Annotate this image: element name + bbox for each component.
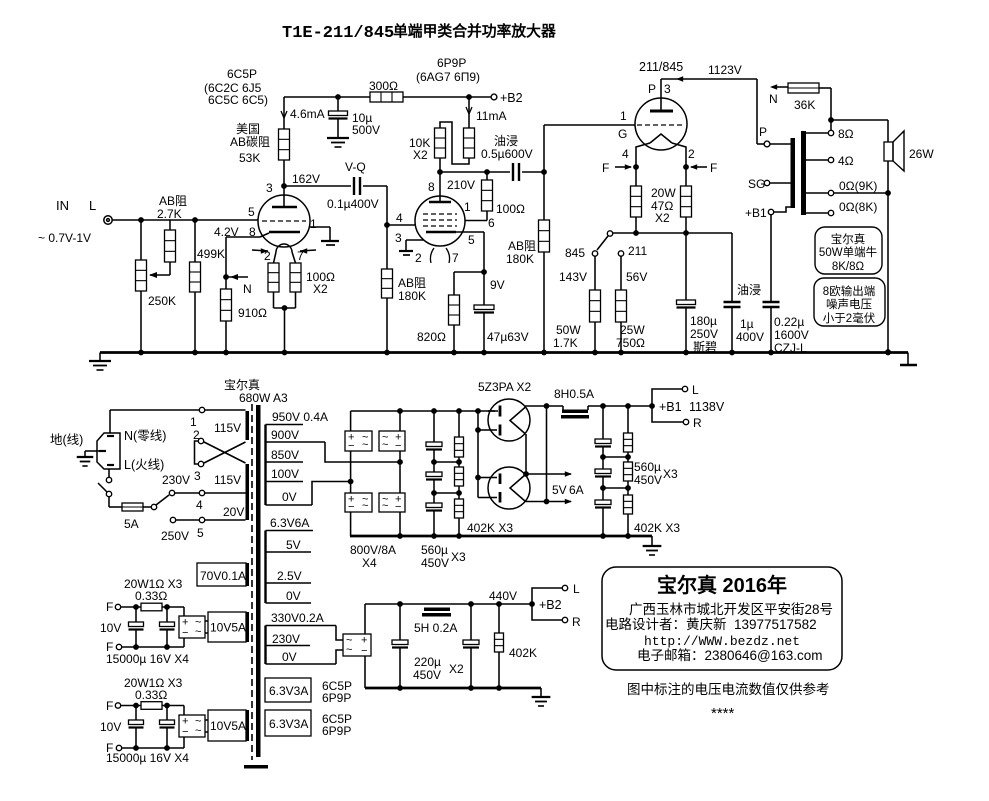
svg-text:+B1: +B1: [745, 206, 767, 220]
svg-text:X2: X2: [413, 148, 428, 162]
svg-text:450V: 450V: [413, 668, 441, 682]
svg-text:6A: 6A: [569, 483, 584, 497]
svg-text:53K: 53K: [239, 151, 260, 165]
svg-text:1.7K: 1.7K: [553, 336, 578, 350]
svg-text:4.6mA: 4.6mA: [290, 107, 325, 121]
svg-text:0V: 0V: [286, 589, 301, 603]
svg-text:F: F: [602, 161, 609, 175]
svg-text:800V/8A: 800V/8A: [350, 543, 396, 557]
svg-text:X2: X2: [449, 662, 464, 676]
svg-text:9V: 9V: [490, 278, 505, 292]
svg-text:680W A3: 680W A3: [239, 391, 288, 405]
svg-text:820Ω: 820Ω: [417, 330, 446, 344]
svg-text:2: 2: [193, 428, 200, 442]
svg-text:230V: 230V: [162, 473, 190, 487]
svg-text:400V: 400V: [736, 330, 764, 344]
svg-text:402K: 402K: [509, 646, 537, 660]
svg-text:180µ: 180µ: [690, 314, 717, 328]
svg-text:950V 0.4A: 950V 0.4A: [272, 410, 328, 424]
svg-text:4.2V: 4.2V: [214, 225, 239, 239]
svg-text:N(零线): N(零线): [124, 429, 166, 443]
svg-text:330V0.2A: 330V0.2A: [271, 611, 324, 625]
svg-text:4: 4: [196, 498, 203, 512]
svg-text:10V: 10V: [100, 621, 121, 635]
svg-text:1: 1: [620, 109, 627, 123]
svg-text:X4: X4: [362, 556, 377, 570]
svg-text:SG: SG: [748, 177, 765, 191]
svg-text:5Z3PA X2: 5Z3PA X2: [478, 380, 531, 394]
svg-text:47µ63V: 47µ63V: [487, 330, 529, 344]
svg-text:6C5P: 6C5P: [227, 67, 257, 81]
svg-text:2: 2: [415, 251, 422, 265]
svg-text:AB碳阻: AB碳阻: [230, 135, 270, 149]
svg-text:750Ω: 750Ω: [616, 336, 645, 350]
svg-text:100V: 100V: [271, 467, 299, 481]
svg-text:6.3V6A: 6.3V6A: [270, 516, 309, 530]
svg-text:油浸: 油浸: [737, 283, 761, 297]
svg-text:36K: 36K: [794, 98, 815, 112]
svg-text:6.3V3A: 6.3V3A: [269, 717, 308, 731]
svg-text:6P9P: 6P9P: [437, 56, 466, 70]
svg-text:0Ω(9K): 0Ω(9K): [839, 179, 877, 193]
svg-text:0.5µ600V: 0.5µ600V: [481, 147, 533, 161]
svg-text:R: R: [572, 615, 581, 629]
svg-text:7: 7: [297, 249, 304, 263]
svg-text:11mA: 11mA: [476, 109, 506, 123]
svg-text:4: 4: [396, 211, 403, 225]
svg-text:T1E-211/845: T1E-211/845: [282, 24, 394, 43]
svg-text:−: −: [361, 645, 367, 657]
svg-text:电子邮箱：2380646@163.com: 电子邮箱：2380646@163.com: [637, 648, 823, 663]
svg-text:X2: X2: [313, 282, 328, 296]
svg-text:230V: 230V: [272, 632, 300, 646]
svg-text:7: 7: [452, 251, 459, 265]
svg-text:8Ω: 8Ω: [838, 127, 854, 141]
svg-text:****: ****: [711, 705, 735, 722]
svg-text:440V: 440V: [489, 589, 517, 603]
svg-text:噪声电压: 噪声电压: [826, 297, 872, 311]
svg-text:~ 0.7V-1V: ~ 0.7V-1V: [38, 231, 91, 245]
svg-text:13977517582: 13977517582: [734, 617, 817, 632]
svg-text:6P9P: 6P9P: [322, 691, 351, 705]
svg-text:P: P: [648, 82, 656, 96]
svg-text:5V: 5V: [552, 483, 567, 497]
svg-text:8H0.5A: 8H0.5A: [554, 387, 594, 401]
svg-text:美国: 美国: [236, 122, 260, 136]
svg-text:R: R: [693, 416, 702, 430]
svg-text:X3: X3: [663, 467, 678, 481]
svg-text:AB阻: AB阻: [159, 194, 187, 208]
svg-text:0.33Ω: 0.33Ω: [135, 589, 167, 603]
svg-text:50W单端牛: 50W单端牛: [819, 245, 877, 259]
svg-text:L: L: [89, 198, 96, 213]
svg-text:220µ: 220µ: [414, 655, 441, 669]
svg-text:宝尔真: 宝尔真: [224, 377, 260, 392]
svg-text:~: ~: [346, 644, 352, 656]
svg-text:宝尔真: 宝尔真: [831, 232, 866, 246]
svg-text:G: G: [618, 127, 627, 141]
svg-text:115V: 115V: [214, 421, 241, 435]
svg-text:115V: 115V: [214, 473, 241, 487]
svg-text:211/845: 211/845: [639, 60, 683, 74]
svg-text:5V: 5V: [286, 538, 301, 552]
svg-text:−: −: [182, 627, 188, 639]
svg-text:25W: 25W: [620, 323, 645, 337]
svg-text:1123V: 1123V: [708, 63, 742, 77]
svg-text:2.5V: 2.5V: [277, 569, 302, 583]
svg-text:地(线): 地(线): [50, 433, 83, 447]
svg-text:10V5A: 10V5A: [210, 621, 246, 635]
svg-text:1600V: 1600V: [774, 328, 809, 342]
svg-text:+B2: +B2: [539, 598, 562, 612]
svg-text:+B1: +B1: [659, 400, 682, 414]
svg-text:5: 5: [468, 233, 475, 247]
svg-text:1: 1: [190, 415, 197, 429]
svg-text:20W: 20W: [651, 186, 676, 200]
svg-text:0V: 0V: [282, 490, 297, 504]
svg-text:15000µ 16V X4: 15000µ 16V X4: [106, 751, 189, 765]
svg-text:15000µ 16V X4: 15000µ 16V X4: [106, 652, 189, 666]
svg-text:210V: 210V: [447, 178, 475, 192]
svg-text:−: −: [395, 501, 401, 513]
svg-text:900V: 900V: [271, 428, 299, 442]
svg-text:50W: 50W: [556, 323, 581, 337]
svg-text:70V0.1A: 70V0.1A: [200, 569, 246, 583]
svg-text:845: 845: [565, 246, 585, 260]
svg-text:0Ω(8K): 0Ω(8K): [839, 200, 877, 214]
svg-text:500V: 500V: [352, 123, 380, 137]
svg-text:499K: 499K: [197, 247, 225, 261]
svg-text:8欧输出端: 8欧输出端: [823, 284, 875, 298]
svg-text:180K: 180K: [506, 252, 534, 266]
svg-text:油浸: 油浸: [494, 134, 518, 148]
svg-text:6: 6: [488, 216, 495, 230]
svg-text:6C5C 6C5): 6C5C 6C5): [208, 93, 268, 107]
svg-text:4Ω: 4Ω: [838, 154, 854, 168]
svg-text:−: −: [348, 501, 354, 513]
svg-text:250V: 250V: [690, 327, 718, 341]
svg-text:2: 2: [688, 147, 695, 161]
svg-text:N: N: [769, 92, 778, 106]
svg-text:26W: 26W: [909, 147, 934, 161]
svg-text:L: L: [692, 383, 699, 397]
svg-text:5A: 5A: [124, 517, 139, 531]
svg-text:162V: 162V: [292, 172, 320, 186]
svg-text:小于2毫伏: 小于2毫伏: [823, 311, 876, 325]
svg-text:P: P: [759, 125, 767, 139]
svg-text:1: 1: [464, 200, 471, 214]
svg-text:6P9P: 6P9P: [322, 724, 351, 738]
svg-text:AB阻: AB阻: [508, 239, 536, 253]
svg-text:5: 5: [197, 526, 204, 540]
svg-text:~: ~: [362, 439, 368, 451]
svg-text:电路设计者：黄庆新: 电路设计者：黄庆新: [605, 617, 727, 632]
svg-text:F: F: [710, 161, 717, 175]
svg-text:图中标注的电压电流数值仅供参考: 图中标注的电压电流数值仅供参考: [627, 681, 830, 697]
svg-text:3: 3: [395, 231, 402, 245]
svg-text:N: N: [243, 282, 252, 296]
svg-text:450V: 450V: [421, 556, 449, 570]
svg-text:L: L: [573, 582, 580, 596]
svg-text:IN: IN: [56, 198, 69, 213]
svg-text:850V: 850V: [271, 448, 299, 462]
svg-text:10V: 10V: [100, 720, 121, 734]
svg-text:单端甲类合并功率放大器: 单端甲类合并功率放大器: [393, 22, 557, 40]
svg-text:AB阻: AB阻: [398, 276, 426, 290]
svg-text:0.22µ: 0.22µ: [774, 315, 804, 329]
svg-text:6.3V3A: 6.3V3A: [269, 684, 308, 698]
svg-text:450V: 450V: [634, 473, 662, 487]
svg-text:180K: 180K: [398, 289, 426, 303]
svg-text:2: 2: [264, 249, 271, 263]
svg-text:1138V: 1138V: [689, 400, 725, 414]
svg-text:4: 4: [622, 147, 629, 161]
svg-text:402K X3: 402K X3: [634, 521, 680, 535]
svg-text:5H 0.2A: 5H 0.2A: [414, 621, 457, 635]
svg-text:2.7K: 2.7K: [157, 207, 182, 221]
svg-text:56V: 56V: [626, 270, 647, 284]
svg-text:560µ: 560µ: [634, 460, 661, 474]
svg-text:3: 3: [664, 82, 671, 96]
svg-text:8: 8: [428, 180, 435, 194]
svg-text:100Ω: 100Ω: [496, 202, 525, 216]
svg-text:−: −: [348, 440, 354, 452]
svg-text:X3: X3: [451, 550, 466, 564]
svg-text:宝尔真 2016年: 宝尔真 2016年: [657, 573, 787, 597]
svg-text:(6AG7 6Π9): (6AG7 6Π9): [416, 70, 480, 84]
svg-text:−: −: [182, 726, 188, 738]
svg-text:L(火线): L(火线): [124, 458, 164, 472]
svg-text:1: 1: [310, 217, 317, 231]
svg-text:http://WWW.bezdz.net: http://WWW.bezdz.net: [644, 634, 800, 649]
svg-text:~: ~: [195, 725, 201, 737]
svg-text:3: 3: [266, 181, 273, 195]
svg-text:402K X3: 402K X3: [467, 521, 513, 535]
svg-text:V-Q: V-Q: [345, 160, 366, 174]
svg-text:广西玉林市城北开发区平安街28号: 广西玉林市城北开发区平安街28号: [629, 601, 833, 617]
svg-text:0.33Ω: 0.33Ω: [135, 688, 167, 702]
svg-text:5: 5: [248, 205, 255, 219]
svg-text:300Ω: 300Ω: [369, 79, 398, 93]
svg-text:~: ~: [362, 500, 368, 512]
svg-text:560µ: 560µ: [421, 543, 448, 557]
svg-text:0V: 0V: [282, 650, 297, 664]
svg-text:~: ~: [382, 500, 388, 512]
svg-text:8K/8Ω: 8K/8Ω: [832, 261, 865, 273]
svg-text:10V5A: 10V5A: [210, 719, 246, 733]
svg-text:X2: X2: [655, 211, 670, 225]
svg-text:F: F: [106, 600, 113, 614]
svg-text:8: 8: [249, 225, 256, 239]
svg-text:F: F: [106, 699, 113, 713]
svg-text:1µ: 1µ: [740, 317, 754, 331]
svg-text:143V: 143V: [559, 270, 587, 284]
svg-text:~: ~: [195, 626, 201, 638]
svg-text:250K: 250K: [148, 294, 176, 308]
svg-text:0.1µ400V: 0.1µ400V: [327, 197, 379, 211]
svg-text:3: 3: [194, 469, 201, 483]
svg-text:−: −: [395, 440, 401, 452]
svg-text:910Ω: 910Ω: [238, 306, 267, 320]
svg-text:20V: 20V: [223, 505, 244, 519]
svg-text:~: ~: [382, 439, 388, 451]
svg-text:+B2: +B2: [500, 91, 523, 105]
svg-text:250V: 250V: [161, 529, 189, 543]
svg-text:211: 211: [628, 244, 647, 258]
